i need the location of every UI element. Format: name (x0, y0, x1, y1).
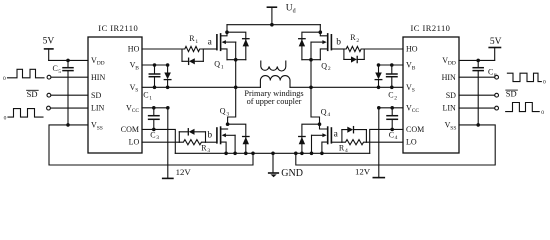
label Q4 (321, 107, 331, 118)
node C6 top (476, 59, 480, 63)
label R4 (339, 143, 348, 154)
node Ud on rail (270, 23, 274, 27)
wire LIN right (459, 107, 495, 109)
svg-text:R: R (350, 33, 356, 42)
label SD-bar right (506, 89, 517, 99)
svg-text:DD: DD (448, 61, 456, 67)
node C2 bottom (390, 86, 394, 90)
node right midpoint (309, 86, 313, 90)
svg-text:b: b (336, 38, 341, 48)
label C6 (488, 68, 497, 79)
wire VS right to bridge midpoint (290, 86, 403, 88)
svg-text:COM: COM (406, 125, 424, 134)
node D4 on rail (300, 152, 304, 156)
body diode D1 (227, 32, 249, 60)
node Q1 source line (234, 58, 238, 62)
transistor Q1 (217, 25, 246, 60)
pin VB right (406, 61, 416, 72)
node C5 top (66, 59, 70, 63)
svg-text:Q: Q (321, 61, 327, 70)
svg-text:b: b (207, 130, 212, 140)
pin VS left (130, 83, 139, 94)
wire VCC right (379, 107, 403, 109)
label C1 (143, 91, 152, 102)
node C4 bottom (390, 128, 394, 132)
wire VB right (379, 64, 404, 66)
node C3 bottom (152, 128, 156, 132)
svg-text:LO: LO (129, 138, 140, 147)
capacitor C4 (387, 108, 397, 130)
svg-text:of upper coupler: of upper coupler (247, 97, 302, 106)
node VCC-C3 (152, 106, 156, 110)
LIN input waveform right (506, 103, 540, 112)
pin VSS left (91, 121, 103, 132)
terminal SD right (495, 93, 499, 97)
svg-text:R: R (201, 143, 207, 152)
Ud supply terminal (267, 7, 276, 25)
svg-text:LO: LO (406, 138, 417, 147)
wire Q4 gate (331, 141, 342, 143)
wire right midpoint column (311, 60, 320, 125)
label SD-bar left (27, 89, 38, 99)
node VB-zener right (377, 63, 381, 67)
pin VDD left (91, 56, 105, 67)
wire LO left (142, 141, 179, 143)
capacitor C3 (149, 108, 159, 130)
label R1 (189, 34, 198, 45)
node Q4 drain (318, 122, 322, 126)
bottom rail (175, 152, 369, 154)
svg-text:5V: 5V (490, 37, 502, 47)
wire R2 to HO right (364, 48, 403, 50)
svg-text:SS: SS (450, 125, 456, 131)
label C3 (150, 130, 159, 141)
node GND on rail (271, 152, 275, 156)
terminal LIN right (495, 106, 499, 110)
svg-text:COM: COM (121, 125, 139, 134)
terminal HIN left (47, 75, 51, 79)
svg-text:B: B (412, 65, 416, 71)
top rail (227, 24, 320, 26)
label Q1 (214, 60, 224, 71)
pin VB left (130, 61, 140, 72)
node zener bottom (166, 86, 170, 90)
node C6 bottom (476, 123, 480, 127)
wire VSS left to ground run (49, 125, 253, 165)
svg-text:R: R (339, 143, 345, 152)
wire R4 to LO right (366, 141, 403, 143)
svg-text:C: C (488, 68, 493, 77)
svg-text:DD: DD (97, 61, 105, 67)
pin LO right (406, 138, 417, 147)
wire HO left (142, 48, 182, 50)
capacitor C5 (63, 60, 73, 125)
label C2 (388, 91, 397, 102)
transistor Q3 (217, 127, 235, 153)
svg-text:d: d (293, 8, 296, 14)
wire VSS right to ground run (296, 125, 495, 165)
zener diode VB-VS left (pointing down) (164, 65, 171, 87)
node VCC-C4 (390, 106, 394, 110)
svg-text:SS: SS (97, 125, 103, 131)
svg-text:0: 0 (3, 76, 6, 82)
wire SD left (51, 94, 88, 96)
IC U1 IR2110 left box (88, 37, 142, 153)
node VB-C2 (390, 63, 394, 67)
svg-text:C: C (388, 91, 393, 100)
svg-text:12V: 12V (355, 167, 371, 177)
pin SD left (91, 91, 101, 100)
HIN input waveform left (8, 69, 45, 78)
svg-text:LIN: LIN (91, 104, 105, 113)
wire COM left to rail (142, 129, 175, 153)
svg-text:B: B (135, 65, 139, 71)
node C1 bottom (153, 86, 157, 90)
zener diode VB-VS right (pointing down) (375, 65, 382, 87)
diode D-R3 (anti-parallel, pointing left) (179, 129, 205, 135)
node Q3 source on rail (224, 152, 228, 156)
svg-text:HO: HO (406, 45, 418, 54)
node VB-zener (166, 63, 170, 67)
terminal HIN right (495, 75, 499, 79)
diode D-R2 (anti-parallel, pointing right) (344, 56, 364, 62)
node Q2 source line (309, 58, 313, 62)
wire LIN left (51, 107, 89, 109)
wire VDD right (459, 59, 495, 61)
node VSS rail junction right (294, 152, 298, 156)
pin VCC right (406, 103, 419, 114)
node VCC-12V right (377, 106, 381, 110)
pin HIN left (91, 73, 105, 82)
resistor R4 (342, 130, 367, 145)
pin VCC left (126, 103, 139, 114)
LIN input waveform left (8, 109, 43, 118)
svg-text:GND: GND (281, 168, 303, 179)
wire COM right to rail (370, 129, 403, 153)
ground (269, 153, 279, 177)
svg-text:1: 1 (149, 95, 152, 101)
wire VS left to bridge midpoint (142, 86, 260, 88)
svg-text:5V: 5V (43, 37, 55, 47)
svg-text:Q: Q (220, 107, 226, 116)
wire R3 to gate (206, 141, 217, 143)
label Q3 (220, 107, 230, 118)
svg-text:2: 2 (394, 95, 397, 101)
IC U2 IR2110 right box (403, 37, 459, 153)
pin COM left (121, 125, 139, 134)
terminal LIN left (47, 106, 51, 110)
svg-text:4: 4 (345, 148, 348, 154)
svg-text:C: C (389, 130, 394, 139)
terminal SD left (47, 93, 51, 97)
wire R1 to gate (203, 48, 217, 50)
wire HIN right (459, 76, 495, 78)
pin HO right (406, 45, 418, 54)
wire VCC left (142, 107, 168, 109)
node Q4 mid on rail (310, 152, 314, 156)
node zener bottom right (377, 86, 381, 90)
svg-text:0: 0 (543, 80, 546, 86)
svg-text:HIN: HIN (442, 73, 456, 82)
label R2 (350, 33, 359, 44)
label C4 (389, 130, 398, 141)
svg-text:2: 2 (356, 38, 359, 44)
5V supply terminal left (45, 49, 53, 61)
pin VS right (406, 83, 415, 94)
svg-text:R: R (189, 34, 195, 43)
node left midpoint (234, 86, 238, 90)
svg-text:S: S (135, 88, 138, 94)
resistor R2 (344, 46, 364, 59)
node Q3 mid on rail (233, 152, 237, 156)
node Q3 drain (226, 122, 230, 126)
svg-text:a: a (208, 37, 213, 47)
capacitor C6 (473, 60, 483, 125)
wire Q2 gate (331, 48, 344, 50)
svg-text:LIN: LIN (443, 104, 457, 113)
label Ud (286, 4, 296, 15)
12V supply left (163, 108, 173, 179)
svg-text:12V: 12V (176, 167, 192, 177)
svg-text:0: 0 (4, 116, 7, 122)
svg-text:HIN: HIN (91, 73, 105, 82)
node C5 bottom (66, 123, 70, 127)
svg-text:C: C (150, 130, 155, 139)
svg-text:1: 1 (221, 64, 224, 70)
svg-text:IC IR2110: IC IR2110 (98, 23, 138, 33)
svg-text:5: 5 (58, 69, 61, 75)
label C5 (53, 64, 62, 75)
node Q2 drain diode tap (319, 30, 323, 34)
svg-text:Q: Q (214, 60, 220, 69)
svg-text:CC: CC (132, 108, 140, 114)
label Q2 (321, 61, 331, 72)
pin LO left (129, 138, 140, 147)
body diode D2 (299, 32, 321, 60)
svg-text:C: C (143, 91, 148, 100)
svg-text:2: 2 (328, 66, 331, 72)
svg-text:4: 4 (395, 135, 398, 141)
node D3 on rail (244, 152, 248, 156)
svg-text:3: 3 (226, 111, 229, 117)
diode D-R4 (anti-parallel, pointing right) (342, 127, 367, 133)
pin HO left (128, 45, 140, 54)
wire VDD left (49, 59, 88, 61)
node Q4 source on rail (320, 152, 324, 156)
pin HIN right (442, 73, 456, 82)
diode D-R1 (anti-parallel, pointing left) (182, 58, 203, 64)
svg-text:SD: SD (91, 91, 101, 100)
resistor R3 (179, 132, 205, 145)
svg-text:S: S (412, 88, 415, 94)
body diode D3 (228, 124, 249, 153)
body diode D4 (299, 124, 320, 153)
svg-text:CC: CC (412, 108, 420, 114)
HIN input waveform right (507, 73, 541, 81)
wire HIN left (51, 76, 88, 78)
transformer lower winding (260, 76, 290, 88)
pin VSS right (445, 121, 457, 132)
wire left midpoint column (228, 60, 236, 125)
node Q1 drain diode tap (225, 30, 229, 34)
svg-text:C: C (53, 64, 58, 73)
capacitor C2 (387, 65, 397, 87)
pin LIN right (443, 104, 457, 113)
transistor Q4 (312, 124, 332, 153)
svg-text:a: a (334, 129, 339, 139)
pin LIN left (91, 104, 105, 113)
pin VDD right (442, 56, 456, 67)
pin COM right (406, 125, 424, 134)
label R3 (201, 143, 210, 154)
pin SD right (446, 91, 456, 100)
node VCC-12V (166, 106, 170, 110)
svg-text:SD: SD (446, 91, 456, 100)
svg-text:IC IR2110: IC IR2110 (411, 23, 451, 33)
svg-text:Q: Q (321, 107, 327, 116)
node VSS rail junction left (251, 152, 255, 156)
wire VB left (142, 64, 168, 66)
svg-text:HO: HO (128, 45, 140, 54)
resistor R1 (182, 46, 203, 61)
svg-text:1: 1 (195, 39, 198, 45)
wire SD right (459, 94, 495, 96)
svg-text:3: 3 (156, 135, 159, 141)
svg-text:0: 0 (541, 110, 544, 116)
12V supply right (373, 108, 384, 178)
transistor Q2 (302, 25, 332, 60)
node VB-C1 (153, 63, 157, 67)
transformer upper winding (261, 61, 286, 71)
svg-text:4: 4 (327, 112, 330, 118)
capacitor C1 (149, 65, 159, 87)
5V supply terminal right (489, 48, 500, 61)
